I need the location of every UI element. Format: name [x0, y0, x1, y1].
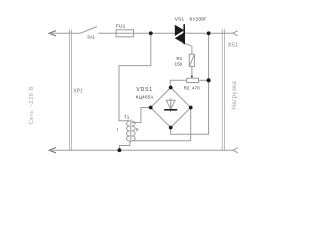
svg-text:SA1: SA1	[87, 35, 95, 40]
svg-text:Т1: Т1	[124, 114, 130, 119]
svg-text:VDS1: VDS1	[136, 87, 153, 93]
svg-text:ХР1: ХР1	[73, 89, 83, 95]
svg-text:VS1: VS1	[175, 16, 185, 21]
svg-text:Нагрузка: Нагрузка	[231, 81, 238, 110]
svg-text:R1: R1	[176, 56, 182, 61]
svg-text:470: 470	[192, 86, 200, 91]
svg-text:Сеть ~220 В: Сеть ~220 В	[29, 86, 35, 125]
svg-text:R2: R2	[184, 86, 190, 91]
svg-text:КУ208Г: КУ208Г	[190, 16, 208, 21]
svg-text:I: I	[117, 127, 118, 132]
svg-text:XS1: XS1	[228, 42, 238, 48]
svg-text:FU1: FU1	[116, 23, 126, 29]
svg-text:150: 150	[175, 62, 183, 67]
svg-text:II: II	[136, 127, 138, 132]
svg-text:КЦ405А: КЦ405А	[136, 94, 155, 99]
